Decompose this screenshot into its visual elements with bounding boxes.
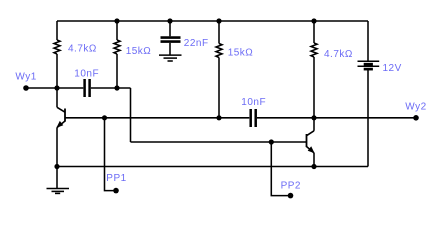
wire C3 right to Wy2 — [257, 117, 416, 119]
svg-text:22nF: 22nF — [184, 38, 209, 49]
wire top supply rail — [57, 20, 368, 22]
node junction R3 top — [216, 18, 221, 23]
node junction R1/Wy1 — [54, 85, 59, 90]
node junction PP1 on base wire — [102, 115, 107, 120]
arrowhead Q1 emitter — [56, 121, 63, 128]
wire PP1 drop — [105, 118, 117, 191]
svg-text:4.7kΩ: 4.7kΩ — [324, 49, 353, 60]
node junction emitter Q1 / ground — [54, 164, 59, 169]
svg-text:15kΩ: 15kΩ — [126, 46, 152, 57]
resistor R2 15k with leads — [114, 21, 120, 88]
transistor Q2 base bar — [306, 134, 308, 147]
capacitor C1 22nF top lead — [169, 21, 171, 36]
wire Q1 base — [65, 117, 249, 119]
terminal PP1 — [113, 188, 119, 194]
battery V1 plates — [358, 61, 380, 69]
wire PP2 drop — [271, 142, 290, 196]
transistor Q2 collector lead — [307, 118, 315, 136]
transistor Q2 emitter with arrow — [307, 147, 315, 167]
wire Wy1 to C2 — [26, 87, 83, 89]
svg-text:Wy1: Wy1 — [15, 72, 36, 83]
svg-text:10nF: 10nF — [74, 68, 99, 79]
node junction R2 top — [114, 18, 119, 23]
resistor R4 4.7k with leads — [311, 21, 317, 118]
terminal Wy1 — [23, 85, 29, 91]
wire ground rail — [57, 166, 368, 168]
node junction R4/Q2 collector — [311, 115, 316, 120]
node junction R4 top — [311, 18, 316, 23]
svg-text:PP2: PP2 — [281, 180, 301, 191]
wire corner down to Q2 base rail — [130, 88, 132, 142]
svg-text:4.7kΩ: 4.7kΩ — [68, 44, 97, 55]
capacitor C2 10nF plates — [85, 79, 90, 97]
resistor R1 4.7k left vertical with leads — [54, 21, 60, 88]
resistor R3 15k with leads — [216, 21, 222, 118]
wire C2 right to corner — [91, 87, 131, 89]
transistor Q1 base bar — [64, 109, 66, 122]
svg-text:10nF: 10nF — [241, 97, 266, 108]
node junction PP2 on Q2 base rail — [269, 139, 274, 144]
transistor Q1 emitter with arrow — [57, 121, 65, 167]
ground symbol bottom left — [47, 167, 70, 194]
transistor Q1 collector lead — [57, 88, 65, 112]
node junction C1 top — [167, 18, 172, 23]
node junction emitter Q2 / ground — [311, 164, 316, 169]
svg-text:12V: 12V — [383, 63, 402, 74]
capacitor C1 22nF plates — [161, 38, 181, 42]
ground under C1 — [159, 43, 182, 61]
arrowhead Q2 emitter — [308, 146, 315, 153]
terminal PP2 — [288, 193, 294, 199]
battery V1 12V leads — [367, 21, 369, 167]
node junction R2 bottom — [114, 85, 119, 90]
svg-text:15kΩ: 15kΩ — [228, 47, 254, 58]
terminal Wy2 — [413, 115, 419, 121]
node junction R3 bottom — [216, 115, 221, 120]
svg-text:PP1: PP1 — [106, 173, 126, 184]
capacitor C3 10nF plates — [251, 109, 256, 127]
wire Q2 base rail horizontal — [131, 141, 307, 143]
svg-text:Wy2: Wy2 — [405, 102, 426, 113]
